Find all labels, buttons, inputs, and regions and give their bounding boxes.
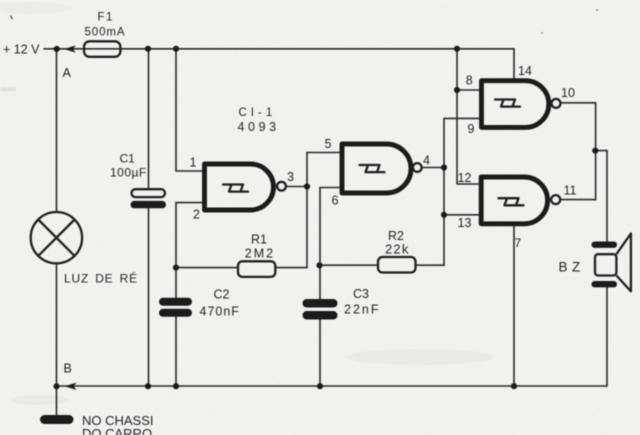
capacitor C1 bbox=[131, 189, 167, 208]
wire C3 bottom to ground rail bbox=[319, 320, 321, 387]
wire C2 bottom to ground rail bbox=[175, 317, 177, 387]
node junction pin1/rail bbox=[173, 46, 179, 52]
paper speck top right bbox=[596, 9, 598, 11]
node junction output4 bbox=[441, 164, 447, 170]
node junction pin13 bbox=[441, 212, 447, 218]
wire output10 bbox=[561, 102, 596, 104]
capacitor C2 bbox=[159, 298, 192, 317]
resistor R2 bbox=[378, 257, 416, 273]
node junction pin8 bbox=[454, 87, 460, 93]
wire pin14 drop bbox=[513, 49, 515, 81]
wire node to C3 top bbox=[319, 265, 321, 299]
node junction C1/rail bbox=[145, 46, 151, 52]
arrow at node A bbox=[64, 45, 76, 52]
resistor R1 bbox=[238, 261, 275, 277]
wire output11 bbox=[560, 199, 595, 201]
wire lamp bottom bbox=[56, 263, 58, 386]
wire node B to chassis ground bbox=[56, 386, 58, 416]
wire pin2 to node R1-C2 bbox=[176, 203, 205, 268]
wire R2 left lead bbox=[320, 264, 378, 266]
wire junction to buzzer bbox=[596, 151, 607, 242]
paper smudge bottom left bbox=[10, 395, 70, 405]
wire pin1 branch bbox=[176, 49, 205, 171]
wire pin7 to ground rail bbox=[513, 224, 515, 386]
node B bbox=[53, 383, 59, 389]
paper smudge bottom middle bbox=[345, 349, 495, 365]
buzzer BZ bbox=[592, 234, 631, 292]
node junction output3 bbox=[304, 183, 310, 189]
wire R1 right lead bbox=[276, 267, 307, 269]
wire R2 right lead bbox=[416, 264, 445, 266]
paper smudge left edge bbox=[0, 87, 16, 91]
fuse F1 bbox=[84, 41, 120, 57]
NAND gate U1D bbox=[481, 177, 560, 224]
node junction R2/C3/pin6 bbox=[316, 262, 322, 268]
wire R1 left lead bbox=[176, 267, 237, 269]
node junction pin7/ground rail bbox=[511, 383, 517, 389]
node junction C3/ground rail bbox=[317, 383, 323, 389]
wire lamp top bbox=[56, 49, 58, 212]
NAND gate U1A bbox=[205, 164, 286, 210]
wire output3 node to pin5 and R1 bbox=[287, 153, 343, 268]
paper speck mid right bbox=[541, 32, 543, 34]
node junction VCC/rail bbox=[454, 46, 460, 52]
NAND gate U1C bbox=[482, 81, 561, 128]
wire node to C2 top bbox=[175, 268, 177, 298]
node A bbox=[54, 46, 60, 52]
node junction C2/ground rail bbox=[173, 383, 179, 389]
ground chassis symbol bbox=[40, 415, 74, 424]
node junction outputs 10-11 bbox=[592, 148, 598, 154]
wire buzzer to ground rail bbox=[606, 287, 608, 386]
paper smudge top left bbox=[0, 2, 70, 14]
lamp LUZ DE RE bbox=[31, 212, 82, 263]
arrow at node B bbox=[65, 383, 77, 390]
wire C1 branch bbox=[148, 49, 150, 386]
paper speck top left bbox=[11, 16, 13, 20]
wire outputs junction vertical bbox=[595, 103, 597, 200]
capacitor C3 bbox=[303, 299, 338, 320]
wire VCC branch to pins 8 and 12 bbox=[457, 49, 482, 184]
wire output4 node to pins 9 and 13 bbox=[422, 118, 482, 265]
wire pin6 to node R2-C3 bbox=[320, 188, 342, 266]
wire +12V rail bbox=[44, 48, 514, 50]
node junction C1/ground rail bbox=[145, 383, 151, 389]
NAND gate U1B bbox=[342, 144, 422, 193]
wire ground rail bbox=[57, 385, 608, 387]
node junction R1/C2/pin2 bbox=[173, 265, 179, 271]
